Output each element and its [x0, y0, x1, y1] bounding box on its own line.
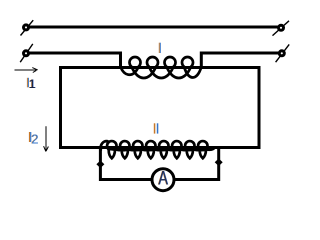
svg-text:2: 2 [31, 131, 38, 146]
svg-text:1: 1 [29, 77, 36, 91]
svg-text:A: A [158, 168, 168, 189]
